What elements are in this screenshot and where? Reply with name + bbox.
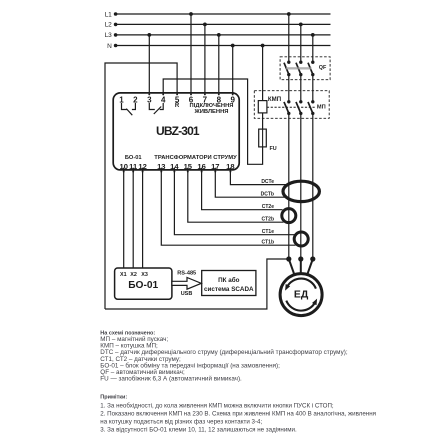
wire N to terminal 9 — [232, 46, 234, 93]
motor rotation arc top — [287, 279, 316, 289]
net L1 bus line — [115, 13, 331, 15]
dashed actuator link — [267, 106, 316, 108]
breaker QF pole 3 — [311, 61, 314, 64]
data arrow RS-485/USB — [172, 278, 201, 290]
node N-terminal9 junction — [231, 44, 235, 48]
contactor MP contact 2 — [299, 100, 302, 103]
node L3-terminal8 junction — [217, 33, 221, 37]
wire MP contact 1 to motor — [288, 113, 290, 259]
wire MP contact 3 to motor — [312, 113, 314, 259]
svg-text:ЖИВЛЕННЯ: ЖИВЛЕННЯ — [194, 109, 229, 115]
svg-text:L3: L3 — [105, 32, 113, 39]
svg-text:N: N — [107, 43, 112, 50]
wire QF pole 3 to MP contact 3 — [312, 75, 314, 102]
wire phase C into motor — [307, 259, 312, 274]
svg-text:CT2e: CT2e — [262, 204, 274, 210]
wire L2 to terminal 7 — [204, 24, 206, 93]
node L2-terminal7 junction — [203, 23, 207, 27]
wire bottom run from R riser to motor — [105, 259, 289, 309]
node L3-QF junction — [311, 33, 315, 37]
relay contact 3-4 — [149, 103, 163, 114]
circuit breaker QF enclosure — [280, 57, 330, 80]
wire coil to N — [262, 46, 264, 101]
wire terminal 14 to CT1e — [174, 168, 294, 235]
svg-text:QF: QF — [319, 65, 327, 71]
relay UBZ-301 body — [113, 93, 239, 170]
svg-text:ТРАНСФОРМАТОРИ СТРУМУ: ТРАНСФОРМАТОРИ СТРУМУ — [154, 155, 237, 161]
svg-text:X3: X3 — [141, 272, 148, 278]
wire terminal 12 to X3 — [142, 168, 144, 268]
svg-text:FU — запобіжник 6,3 А (автомат: FU — запобіжник 6,3 А (автоматичний вими… — [100, 375, 242, 383]
wire terminal 4 to KMP coil via FU — [163, 79, 262, 164]
relay contact 1-2 — [122, 103, 136, 115]
wire L2 down to QF pole 2 — [300, 24, 302, 62]
differential current transformer DTC — [283, 181, 319, 201]
svg-text:CT1e: CT1e — [262, 229, 274, 235]
computer SCADA body — [202, 271, 256, 296]
current transformer CT2 — [282, 209, 296, 223]
coil KMP — [258, 101, 267, 113]
motor ED body — [280, 274, 322, 316]
node L1-terminal6 junction — [189, 12, 193, 16]
svg-text:система SCADA: система SCADA — [204, 286, 254, 293]
svg-text:3. За відсутності БО-01 клеми: 3. За відсутності БО-01 клеми 10, 11, 12… — [100, 426, 297, 433]
wire terminal 18 to DCTe — [230, 168, 288, 185]
svg-text:БО-01: БО-01 — [128, 280, 158, 291]
svg-text:X1: X1 — [120, 272, 127, 278]
wire L3 down to QF pole 3 — [312, 35, 314, 62]
svg-text:CT2b: CT2b — [262, 217, 275, 223]
wire terminal 11 to X2 — [132, 168, 134, 268]
svg-text:ПК або: ПК або — [218, 276, 240, 284]
contactor MP contact 3 — [311, 100, 314, 103]
wire terminal 10 to X1 — [123, 168, 125, 268]
svg-text:RS-485: RS-485 — [177, 271, 196, 277]
svg-text:КМП: КМП — [268, 96, 281, 103]
module BO-01 body — [115, 268, 172, 299]
wire phase A into motor — [289, 259, 294, 274]
wire terminal 5 (R) to left riser — [105, 63, 177, 309]
node L2-QF junction — [299, 23, 303, 27]
wire terminal 13 to CT1b — [161, 168, 295, 246]
svg-text:Примітки:: Примітки: — [100, 394, 127, 400]
wire L1 down to QF pole 1 — [288, 14, 290, 62]
node motor phase C — [310, 256, 315, 261]
wire L1 to terminal 6 — [190, 14, 192, 93]
svg-text:L2: L2 — [105, 22, 113, 29]
terminal tick marks — [148, 92, 150, 95]
svg-text:X2: X2 — [130, 272, 137, 278]
motor rotation arc bottom — [286, 301, 315, 311]
QF tie bar — [286, 67, 312, 69]
net L3 bus line — [115, 34, 331, 36]
wire QF pole 2 to MP contact 2 — [300, 75, 302, 102]
wire terminal 15 to CT2b — [188, 168, 284, 223]
svg-text:на котушку подається від різни: на котушку подається від різних фаз чере… — [100, 418, 262, 425]
svg-text:DCTe: DCTe — [261, 179, 274, 185]
svg-text:CT1b: CT1b — [262, 240, 275, 246]
breaker QF pole 2 — [299, 61, 302, 64]
svg-text:FU: FU — [270, 146, 277, 152]
svg-text:1. За необхідності, до кола жи: 1. За необхідності, до кола живлення КМП… — [100, 403, 334, 410]
svg-text:МП: МП — [317, 104, 326, 110]
wire FU to coil — [262, 113, 264, 129]
svg-text:DCTb: DCTb — [261, 192, 274, 198]
svg-text:L1: L1 — [105, 11, 113, 18]
contactor KMP enclosure — [254, 91, 329, 119]
current transformer CT1 — [294, 232, 308, 246]
node motor phase B — [298, 256, 303, 261]
svg-text:ЕД: ЕД — [294, 289, 309, 300]
svg-text:USB: USB — [181, 291, 193, 297]
breaker QF pole 1 — [287, 61, 290, 64]
svg-text:2. Показано включення КМП на 2: 2. Показано включення КМП на 230 В. Схем… — [100, 411, 376, 418]
node N-KMP coil junction — [261, 44, 265, 48]
wire L3 to terminal 3 — [148, 35, 150, 93]
fuse FU — [259, 129, 267, 147]
node motor phase A — [286, 256, 291, 261]
node L1-QF junction — [287, 12, 291, 16]
wire L3 to terminal 8 — [218, 35, 220, 93]
wire terminal 16 to CT2e — [202, 168, 283, 210]
wire phase B into motor — [300, 259, 302, 273]
svg-text:БО-01: БО-01 — [125, 155, 142, 161]
contactor MP contact 1 — [287, 100, 290, 103]
wire MP contact 2 to motor — [300, 113, 302, 259]
wire QF pole 1 to MP contact 1 — [288, 75, 290, 102]
net N bus line — [115, 45, 331, 47]
svg-text:UBZ-301: UBZ-301 — [156, 124, 200, 138]
node L3-terminal3 junction — [147, 33, 151, 37]
svg-text:R: R — [175, 103, 180, 109]
wire terminal 17 to DCTb — [215, 168, 284, 198]
net L2 bus line — [115, 23, 331, 25]
